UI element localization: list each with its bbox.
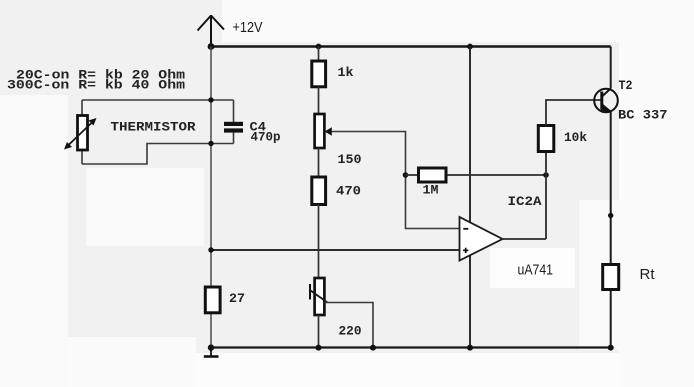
wire 1k column top — [318, 47, 320, 62]
wire pot150 wiper to 1M node — [332, 132, 406, 176]
node thermistor-top — [208, 97, 213, 102]
wire left vertical column — [210, 47, 212, 348]
wire output feedback vertical — [545, 175, 547, 239]
svg-text:Rt: Rt — [640, 266, 656, 283]
wire bottom rail — [211, 346, 611, 348]
resistor 470 — [312, 177, 361, 205]
node emitter-mid — [608, 213, 613, 218]
wire 1k to pot150 — [318, 87, 320, 114]
node rail-wiper — [370, 345, 376, 351]
wire +12V top rail — [211, 45, 611, 47]
wire thermistor top — [82, 99, 234, 101]
wire base from 10k — [546, 100, 602, 126]
wire thermistor bottom step — [82, 144, 234, 165]
capacitor C4 — [224, 100, 281, 145]
svg-text:10k: 10k — [564, 131, 587, 145]
svg-text:T2: T2 — [619, 79, 633, 93]
svg-text:BC 337: BC 337 — [618, 109, 668, 123]
svg-text:IC2A: IC2A — [508, 195, 543, 209]
potentiometer 150 — [315, 114, 362, 167]
transistor T2 — [594, 79, 667, 123]
svg-text:THERMISTOR: THERMISTOR — [111, 121, 197, 135]
resistor 1k — [312, 61, 354, 87]
resistor Rt — [603, 265, 656, 290]
svg-text:470: 470 — [336, 185, 361, 199]
resistor 1M — [406, 168, 547, 198]
wire pot150 to 470 — [318, 148, 320, 177]
node 1M-left — [403, 172, 409, 178]
svg-text:1k: 1k — [338, 66, 355, 80]
node rail-left — [208, 43, 215, 50]
svg-text:1M: 1M — [423, 184, 439, 198]
resistor 10k — [538, 126, 587, 152]
svg-text:470p: 470p — [251, 131, 281, 145]
svg-text:uA741: uA741 — [518, 262, 554, 279]
node rail-1k — [316, 44, 322, 50]
node feedback-output — [543, 172, 549, 178]
power +12V symbol — [198, 15, 263, 47]
svg-text:27: 27 — [229, 292, 245, 306]
ground — [204, 348, 219, 357]
wire 1M node to inverting input — [406, 175, 460, 229]
node divider-left — [208, 247, 213, 252]
wire noninverting input from divider — [211, 249, 460, 251]
resistor 27 — [205, 287, 245, 313]
wire 220 bottom — [318, 315, 320, 348]
svg-text:220: 220 — [339, 325, 362, 339]
svg-text:150: 150 — [338, 153, 362, 167]
wire op-amp output — [503, 238, 547, 240]
node rail-220 — [316, 345, 322, 351]
op-amp IC2A — [460, 195, 554, 279]
wire emitter column — [610, 112, 612, 348]
wire 10k bottom — [545, 152, 547, 176]
thermistor — [64, 100, 196, 164]
wire collector — [610, 47, 612, 89]
svg-text:300C-on R= kb 40 Ohm: 300C-on R= kb 40 Ohm — [7, 79, 186, 93]
wire trimmer wiper to rail — [325, 303, 374, 348]
node rail-right — [608, 345, 614, 351]
node cap-bottom-junction — [208, 141, 213, 146]
node rail-mid-bottom — [467, 345, 473, 351]
wire 470 to trimmer 220 — [318, 205, 320, 279]
note text temperature/resistance — [7, 69, 186, 93]
wire middle vertical — [469, 47, 471, 348]
node rail-ground — [208, 344, 214, 350]
svg-text:+12V: +12V — [233, 19, 263, 36]
node rail-mid — [467, 44, 473, 50]
trimmer 220 — [310, 278, 362, 339]
